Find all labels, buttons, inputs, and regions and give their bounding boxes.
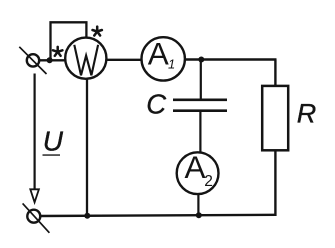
svg-text:1: 1	[168, 57, 175, 72]
wattmeter W	[65, 38, 106, 79]
svg-text:C: C	[146, 89, 166, 120]
source terminal (top)	[27, 54, 39, 66]
wire: wattmeter to ammeter A1	[106, 59, 141, 61]
svg-text:A: A	[184, 149, 205, 185]
wire: capacitor to ammeter A2	[199, 111, 201, 153]
svg-text:A: A	[148, 36, 169, 72]
polarity mark * (left, at voltage tap)	[53, 47, 62, 56]
source terminal (bottom)	[27, 210, 40, 223]
wire: A2 down to bottom rail	[197, 194, 199, 215]
node: junction dot at wattmeter voltage tap	[47, 57, 53, 63]
node: junction dot wattmeter at bottom rail	[84, 213, 90, 219]
voltage arrow head	[30, 189, 39, 202]
capacitor C plates	[173, 99, 227, 102]
svg-text:U: U	[43, 126, 64, 157]
polarity mark * (top, above wattmeter)	[93, 27, 102, 36]
wire: resistor down to bottom rail	[274, 150, 276, 216]
node: junction dot A2 at bottom rail	[196, 212, 202, 218]
svg-text:2: 2	[204, 173, 213, 190]
wire: right branch down from top rail	[274, 60, 276, 86]
resistor R	[262, 86, 288, 150]
node: junction dot at capacitor branch	[198, 57, 204, 63]
wire: wattmeter voltage coil down to bottom rail	[86, 79, 88, 216]
wire: left branch vertical	[33, 74, 35, 191]
wire: wattmeter voltage-coil loop	[51, 22, 87, 59]
wire: A1 to top-right corner	[185, 58, 277, 60]
wire: bottom rail	[40, 215, 277, 216]
ammeter A2	[177, 152, 219, 194]
wire: down to capacitor	[200, 60, 202, 101]
svg-text:R: R	[297, 99, 317, 129]
ammeter A1	[142, 37, 185, 80]
wire: top wire from source terminal to wattmeter	[39, 59, 66, 61]
